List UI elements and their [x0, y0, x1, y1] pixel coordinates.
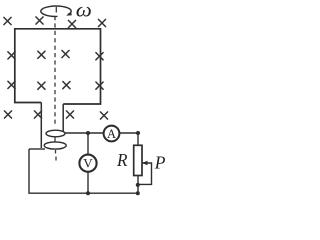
svg-text:V: V — [83, 155, 93, 170]
svg-text:A: A — [107, 127, 116, 141]
svg-text:R: R — [116, 149, 128, 170]
svg-text:P: P — [154, 153, 166, 173]
svg-text:ω: ω — [76, 0, 92, 21]
